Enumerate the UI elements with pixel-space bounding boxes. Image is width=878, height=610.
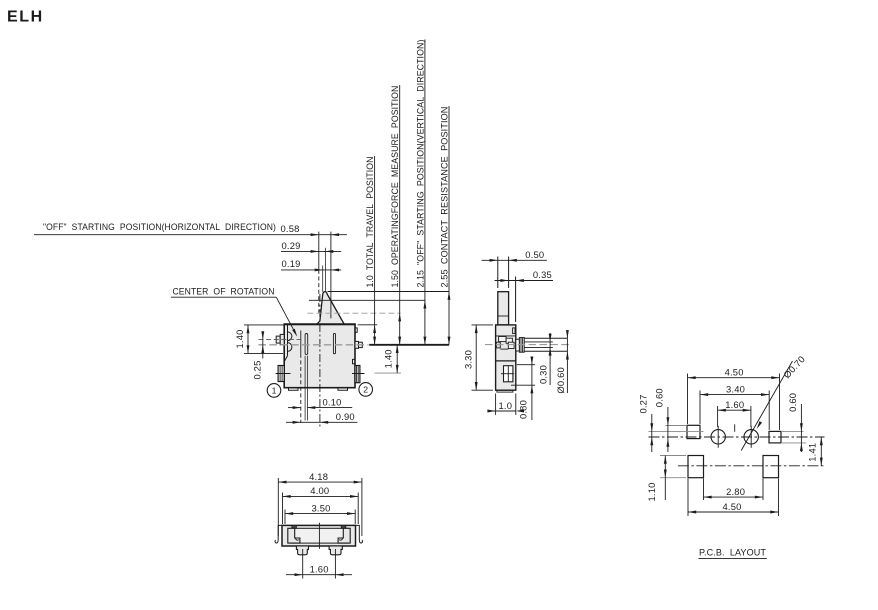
mechanism detail e (500, 348, 508, 350)
mechanism detail c (496, 342, 500, 348)
leader dia 0.70 (741, 361, 792, 451)
svg-text:1.10: 1.10 (646, 482, 657, 501)
inner cavity (291, 528, 349, 543)
dim 3.50 (284, 510, 286, 525)
dim 0.60 left (667, 407, 669, 452)
hole right (744, 430, 758, 444)
svg-text:0.10: 0.10 (323, 397, 342, 408)
svg-text:1.60: 1.60 (310, 563, 329, 574)
svg-text:0.80: 0.80 (517, 400, 528, 419)
divider top section (496, 335, 516, 337)
lever hidden edge line dashed (300, 354, 302, 423)
top window (513, 328, 515, 334)
dim 4.50 top (687, 374, 689, 425)
svg-text:3.40: 3.40 (726, 383, 745, 394)
dim 0.29 (281, 250, 341, 252)
svg-text:ELH: ELH (7, 9, 44, 26)
left foot terminal (278, 366, 284, 382)
svg-text:4.50: 4.50 (723, 501, 742, 512)
terminal pin (side view) outer nut (519, 338, 524, 353)
hole centerline (649, 436, 825, 438)
terminal pin left outer (276, 336, 280, 343)
shaft segment line (498, 315, 509, 317)
svg-text:2.15 "OFF" STARTING POSITIO: 2.15 "OFF" STARTING POSITION(VERTICAL DI… (415, 39, 425, 287)
left foot centerline (276, 373, 291, 375)
lead inner top (524, 341, 553, 343)
svg-text:0.60: 0.60 (787, 393, 798, 412)
terminal pin right outer (359, 342, 363, 347)
dim 1.10 (660, 455, 686, 457)
svg-text:2.55 CONTACT RESISTANCE POS: 2.55 CONTACT RESISTANCE POSITION (440, 107, 450, 288)
svg-text:1.41: 1.41 (806, 443, 817, 462)
dim 3.40 (699, 391, 701, 425)
dim 0.80 (517, 364, 535, 366)
body top edge (284, 323, 356, 325)
leader to rotation center (276, 297, 296, 334)
dim 0.30 (549, 333, 551, 385)
svg-text:4.50: 4.50 (725, 367, 744, 378)
bottom tab left (289, 388, 299, 390)
bottom foot strip (497, 390, 513, 392)
circle terminal 1 (267, 384, 281, 398)
svg-text:0.90: 0.90 (336, 411, 355, 422)
free position heavy line (369, 344, 449, 346)
svg-text:1.0: 1.0 (499, 400, 513, 411)
svg-text:0.27: 0.27 (638, 394, 649, 413)
dim line 1.50 operating force (399, 85, 401, 345)
left flange bump lower (288, 343, 292, 352)
mechanism detail a (499, 337, 507, 342)
terminal pin (side view) inner (516, 339, 520, 351)
svg-text:0.58: 0.58 (281, 223, 300, 234)
left flange inner edge (287, 325, 289, 356)
dim 0.25 left (262, 332, 264, 358)
foot left (bottom view) (296, 546, 308, 555)
top-right tab (355, 328, 357, 332)
lower pads centerline (678, 465, 825, 467)
svg-text:0.50: 0.50 (525, 249, 544, 260)
dim 4.50 bottom (687, 479, 689, 517)
svg-text:2.80: 2.80 (726, 486, 745, 497)
svg-text:0.25: 0.25 (251, 360, 262, 379)
dim 4.18 (277, 478, 279, 536)
ext line left top (666, 425, 688, 427)
dim 1.41 (820, 437, 822, 466)
svg-text:"OFF" STARTING POSITION(HORI: "OFF" STARTING POSITION(HORIZONTAL DIREC… (43, 222, 276, 232)
dim 2.80 (703, 479, 705, 501)
pad upper right (769, 431, 781, 443)
svg-text:CENTER OF ROTATION: CENTER OF ROTATION (173, 286, 275, 296)
dim 3.30 (472, 324, 494, 326)
svg-text:1.50 OPERATINGFORCE MEASURE: 1.50 OPERATINGFORCE MEASURE POSITION (390, 86, 400, 288)
svg-text:1.40: 1.40 (383, 349, 394, 368)
position ref line 1.50 dashed (307, 312, 400, 314)
body (bottom view) (282, 525, 356, 546)
lower window cross vertical (507, 366, 509, 382)
vertical centerline (front) (319, 294, 321, 429)
lever lower edge pair (304, 356, 306, 421)
right foot terminal (355, 366, 360, 383)
terminal pin left inner (280, 334, 284, 344)
dim dia 0.60 (566, 331, 568, 394)
center line (bottom view) (318, 523, 320, 549)
svg-text:4.00: 4.00 (310, 485, 329, 496)
svg-text:0.30: 0.30 (538, 365, 549, 384)
dim 4.00 (282, 493, 284, 525)
dim 0.19 (281, 269, 341, 271)
foot right (bottom view) (329, 546, 342, 555)
ext line right top (781, 430, 804, 432)
dim 0.50 (497, 257, 499, 289)
dim 0.58 line (also underline of OFF label) (34, 234, 347, 236)
left flange bump upper (288, 332, 292, 341)
svg-text:2: 2 (363, 384, 368, 394)
contact bracket left (288, 528, 300, 543)
dim 0.90 (286, 421, 358, 423)
right-side notch (353, 359, 356, 363)
pad lower left (688, 456, 704, 478)
lower window cross horizontal (501, 373, 514, 375)
lead outer top (524, 337, 567, 339)
switch body (side view) (496, 325, 516, 390)
circle terminal 2 (359, 383, 373, 397)
right foot centerline (352, 373, 365, 375)
hole left (711, 430, 725, 444)
dim 0.60 right (800, 404, 802, 452)
right spring hook (355, 525, 363, 543)
dim 1.60 feet (302, 549, 304, 579)
svg-text:1.40: 1.40 (234, 329, 245, 348)
lever shaft (side view) (498, 292, 509, 325)
lever hidden edge line solid (300, 331, 302, 354)
left flange step (284, 356, 287, 362)
center tick between holes (734, 424, 736, 432)
svg-text:1: 1 (272, 385, 277, 395)
pad upper left (687, 425, 700, 438)
dim 1.0 bottom (495, 394, 497, 416)
svg-text:3.30: 3.30 (462, 350, 473, 369)
svg-text:Ø0.70: Ø0.70 (781, 353, 807, 380)
lever (tilted, front view) (317, 292, 345, 325)
slot B (333, 334, 335, 354)
lower window (504, 366, 513, 382)
dim line 2.55 contact resistance (448, 106, 450, 345)
left spring hook (275, 525, 283, 543)
mechanism detail b (506, 338, 512, 343)
dim 1.40 left (244, 324, 284, 326)
top tick left (292, 525, 297, 528)
svg-text:0.29: 0.29 (282, 240, 301, 251)
dim line 2.15 OFF starting vertical (424, 40, 426, 345)
svg-text:0.60: 0.60 (653, 388, 664, 407)
ext line right bottom (781, 442, 806, 444)
divider mid section (496, 360, 516, 362)
dim 0.27 (651, 414, 653, 452)
pin axis dashed (left, offset) (259, 338, 304, 340)
dim 1.40 right (375, 372, 402, 374)
svg-text:1.60: 1.60 (725, 399, 744, 410)
terminal pin right inner (355, 341, 359, 348)
bottom tab right (338, 388, 348, 390)
contact bracket right (338, 528, 350, 543)
dim line 1.0 total travel (374, 156, 376, 345)
top tick right (341, 525, 346, 528)
lead inner bottom (524, 346, 553, 348)
svg-text:3.50: 3.50 (312, 502, 331, 513)
position ref line 2.55 top (328, 291, 449, 293)
svg-text:P.C.B. LAYOUT: P.C.B. LAYOUT (699, 548, 766, 558)
switch body (front view) (284, 324, 355, 387)
svg-text:0.35: 0.35 (533, 269, 552, 280)
position ref line 2.15 (309, 299, 425, 301)
pad lower right (763, 456, 779, 478)
dim 0.10 (288, 407, 301, 409)
svg-text:4.18: 4.18 (309, 471, 328, 482)
body top extension (358, 324, 378, 326)
lead centerline (485, 344, 571, 346)
slot A (305, 334, 308, 355)
mechanism detail d (508, 342, 514, 348)
extension lines above lever (318, 232, 320, 270)
svg-text:1.0 TOTAL TRAVEL POSITION: 1.0 TOTAL TRAVEL POSITION (365, 157, 375, 288)
svg-text:Ø0.60: Ø0.60 (555, 367, 566, 394)
svg-text:0.19: 0.19 (282, 258, 301, 269)
lead outer bottom (524, 350, 567, 352)
dim 0.35 (515, 277, 517, 323)
main horizontal centerline (259, 344, 369, 346)
ext line left mid (649, 430, 704, 432)
dim 1.60 holes (717, 406, 719, 427)
